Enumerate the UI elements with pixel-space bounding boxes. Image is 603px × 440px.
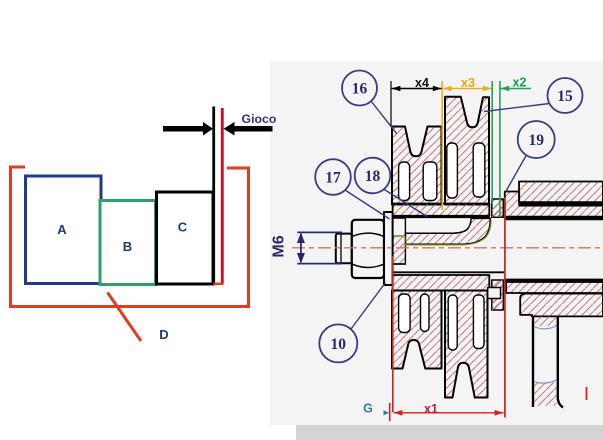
red gap line foot (214, 283, 224, 286)
leg upper break curve (534, 326, 557, 329)
extension line green 2 (499, 81, 501, 218)
red container outline (11, 167, 249, 307)
housing upper bottom thick line (504, 217, 603, 221)
pulley P2 upper half (445, 97, 489, 205)
dim x2 (500, 88, 531, 90)
leg upper hatch stub (534, 316, 556, 326)
leg lower break curve (534, 380, 557, 383)
G arrow (384, 410, 390, 415)
housing leg right edge (558, 316, 563, 407)
svg-text:G: G (363, 402, 373, 416)
balloon 19 (518, 121, 555, 158)
svg-text:x1: x1 (424, 402, 438, 416)
bushing flange hatched (393, 236, 406, 264)
leader 10 (351, 283, 386, 330)
extension line red left (392, 256, 394, 412)
shank chamfer line (340, 234, 342, 262)
svg-text:A: A (57, 222, 67, 237)
pulley P2 upper slot left (447, 143, 458, 198)
centerline (292, 247, 600, 249)
housing lower top thick line (505, 279, 603, 282)
leg break hatch patch (534, 382, 556, 406)
spacer lower (492, 280, 504, 310)
black gap line (212, 107, 215, 285)
washer (384, 212, 393, 285)
spacer upper (492, 199, 504, 217)
svg-text:Gioco: Gioco (242, 112, 277, 126)
svg-text:16: 16 (352, 81, 368, 98)
bolt shank (336, 234, 352, 264)
dim x3 (443, 88, 492, 90)
hex facet bottom (352, 264, 383, 267)
svg-text:19: 19 (528, 132, 544, 149)
leader 17 (345, 190, 390, 219)
dim x4 (392, 88, 442, 90)
extension line black x4 (390, 81, 392, 127)
housing upper strip A (519, 182, 603, 203)
pulley P1 lower slot right (421, 294, 430, 332)
red gap line (221, 108, 224, 284)
balloon 10 (319, 324, 357, 362)
extension line orange (441, 81, 443, 210)
extension line green 1 (491, 81, 493, 204)
balloon 18 (355, 158, 391, 194)
svg-text:18: 18 (365, 168, 381, 185)
pulley P2 upper slot right (473, 143, 485, 197)
left arrow (163, 122, 213, 136)
svg-text:10: 10 (331, 336, 347, 353)
hex facet top (352, 233, 383, 236)
svg-text:D: D (159, 327, 168, 342)
svg-text:x2: x2 (513, 76, 527, 90)
pulley P2 lower slot right (473, 295, 484, 349)
pulley P1 upper half (392, 127, 442, 205)
svg-text:M6: M6 (271, 235, 288, 257)
housing arm flange (520, 294, 603, 317)
leader 15 (484, 104, 550, 112)
leader D (108, 293, 142, 342)
housing lower band (506, 282, 603, 293)
housing leg left edge (532, 316, 534, 407)
pulley P2 lower half (445, 291, 488, 398)
leader 16 (371, 101, 397, 134)
balloon 16 (342, 71, 377, 106)
red tick (586, 387, 588, 400)
svg-text:x3: x3 (461, 76, 475, 90)
shaft bottom line (386, 271, 504, 273)
bushing flange bore white (393, 218, 406, 236)
dim x1 (393, 412, 503, 414)
box C (157, 192, 214, 284)
dim M6 extension bottom (297, 263, 342, 265)
svg-text:15: 15 (557, 88, 573, 105)
pulley P1 upper slot left (399, 162, 410, 201)
hex head (352, 220, 384, 278)
hub bottom line (392, 216, 490, 218)
pulley P1 lower slot left (399, 294, 411, 333)
svg-text:B: B (123, 239, 132, 254)
drawing panel background (270, 61, 603, 425)
shaft left step (387, 257, 393, 272)
pulley P1 lower half (392, 291, 442, 369)
extension red stub (389, 403, 391, 421)
svg-text:17: 17 (325, 170, 341, 187)
spacer lower notch (488, 288, 501, 299)
housing upper strip B with lip (505, 192, 603, 217)
pulley P1 upper slot right (423, 162, 437, 201)
svg-text:x4: x4 (415, 76, 429, 90)
right arrow (224, 122, 273, 136)
housing upper mid thick line (519, 202, 603, 205)
bushing flange bottom line (393, 263, 406, 265)
svg-text:C: C (178, 220, 188, 235)
extension line red right (504, 197, 506, 418)
bushing lip (405, 218, 490, 244)
balloon 15 (548, 78, 583, 113)
bore channel white (394, 218, 489, 237)
balloon 17 (315, 159, 351, 195)
lower hub band (393, 275, 490, 291)
leader 19 (506, 154, 528, 192)
leader 18 (384, 189, 428, 217)
box B (100, 201, 156, 285)
pulley P2 lower slot left (448, 295, 457, 350)
upper hub band (393, 204, 490, 216)
lip olive edge (393, 220, 492, 245)
box A (26, 176, 102, 284)
bottom gray strip (296, 425, 603, 440)
dim M6 arrow line (300, 234, 302, 262)
dim M6 extension top (297, 231, 342, 233)
